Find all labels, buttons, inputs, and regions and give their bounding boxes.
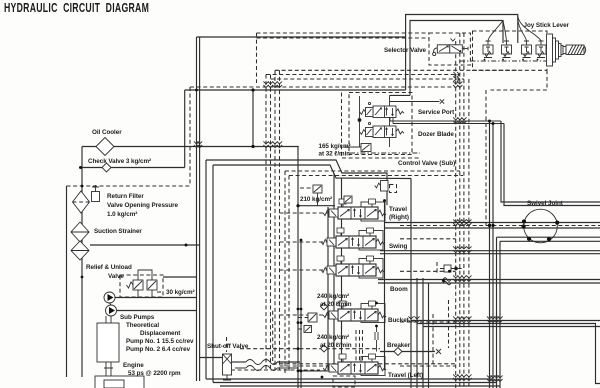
svg-text:Travel (Left): Travel (Left): [388, 372, 423, 379]
svg-text:30 kg/cm²: 30 kg/cm²: [166, 289, 195, 296]
svg-text:165 kg/cm²: 165 kg/cm²: [319, 143, 351, 150]
svg-text:HYDRAULIC CIRCUIT DIAGRAM: HYDRAULIC CIRCUIT DIAGRAM: [4, 2, 149, 16]
svg-text:Bucket: Bucket: [388, 317, 410, 324]
svg-text:Sub Pumps: Sub Pumps: [120, 314, 155, 321]
svg-text:210 kg/cm²: 210 kg/cm²: [300, 196, 332, 203]
svg-text:53 ps @ 2200 rpm: 53 ps @ 2200 rpm: [128, 370, 181, 377]
svg-text:1.0 kg/cm²: 1.0 kg/cm²: [107, 211, 137, 218]
svg-text:Pump No. 1 15.5 cc/rev: Pump No. 1 15.5 cc/rev: [126, 338, 194, 345]
svg-text:at 20 ℓ/min: at 20 ℓ/min: [320, 342, 352, 349]
svg-text:at 20 ℓ/min: at 20 ℓ/min: [320, 301, 352, 308]
svg-text:240 kg/cm²: 240 kg/cm²: [317, 334, 349, 341]
svg-text:Pump No. 2 6.4 cc/rev: Pump No. 2 6.4 cc/rev: [126, 346, 191, 353]
svg-text:Oil Cooler: Oil Cooler: [92, 129, 122, 136]
svg-text:Control Valve (Sub): Control Valve (Sub): [398, 160, 455, 167]
svg-text:Check Valve 3 kg/cm²: Check Valve 3 kg/cm²: [88, 158, 151, 165]
svg-text:Joy Stick Lever: Joy Stick Lever: [524, 22, 570, 29]
svg-text:Return Filter: Return Filter: [107, 193, 144, 200]
svg-text:Theoretical: Theoretical: [126, 322, 159, 329]
svg-text:Shut-off Valve: Shut-off Valve: [207, 343, 249, 350]
svg-text:Valve Opening Pressure: Valve Opening Pressure: [107, 202, 179, 209]
svg-text:Dozer Blade: Dozer Blade: [418, 131, 454, 138]
svg-text:Suction Strainer: Suction Strainer: [94, 228, 142, 235]
svg-text:Displacement: Displacement: [140, 330, 181, 337]
svg-text:Travel: Travel: [389, 206, 407, 213]
svg-text:Service Port: Service Port: [418, 109, 455, 116]
svg-text:Selector Valve: Selector Valve: [384, 47, 427, 54]
svg-text:Boom: Boom: [390, 286, 408, 293]
svg-text:240 kg/cm²: 240 kg/cm²: [317, 293, 349, 300]
svg-text:(Right): (Right): [389, 214, 409, 221]
svg-text:Swing: Swing: [389, 243, 407, 250]
svg-text:Valve: Valve: [108, 273, 124, 280]
svg-text:Breaker: Breaker: [387, 342, 411, 349]
svg-text:Swivel Joint: Swivel Joint: [527, 200, 564, 207]
svg-text:Engine: Engine: [123, 362, 144, 369]
svg-text:Relief & Unload: Relief & Unload: [86, 264, 132, 271]
svg-text:at 32 ℓ/min: at 32 ℓ/min: [319, 151, 351, 158]
